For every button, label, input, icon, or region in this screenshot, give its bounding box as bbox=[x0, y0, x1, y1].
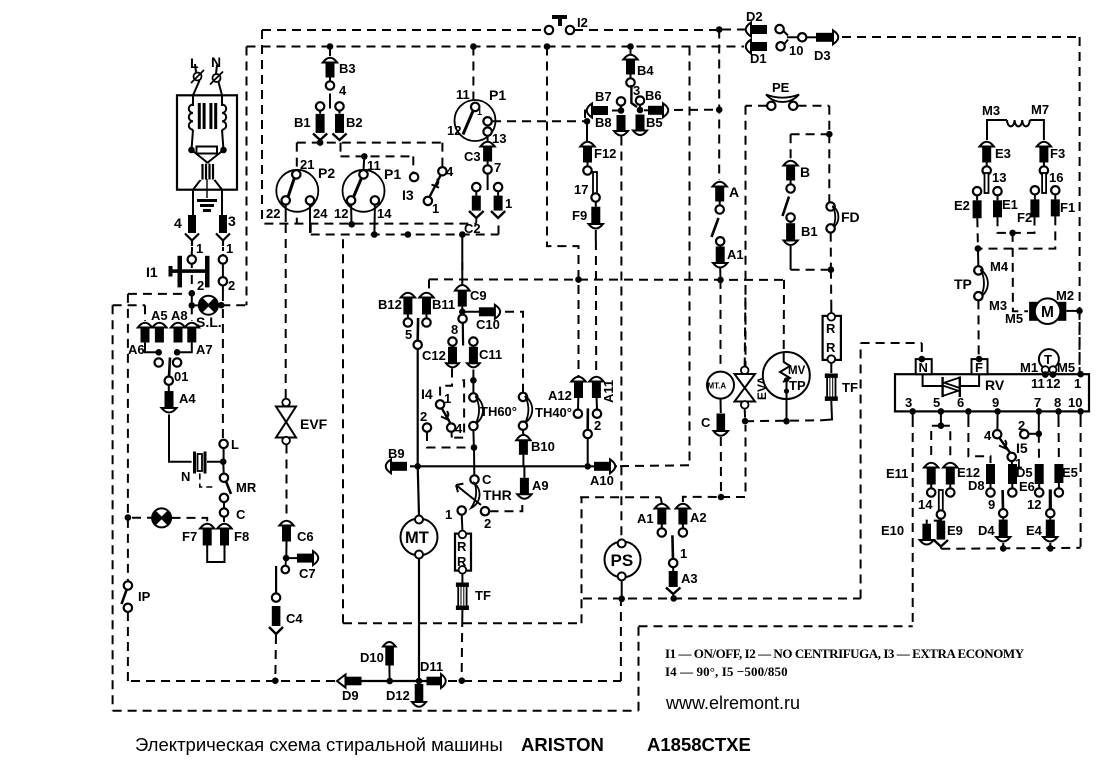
wire D10 stem bbox=[388, 666, 390, 682]
junction pin7 2 bbox=[1036, 431, 1043, 438]
link 16 bbox=[1042, 173, 1046, 193]
wire corner x860.6 up bbox=[860, 343, 862, 599]
wire B2 to timer line bbox=[340, 143, 342, 157]
connector A7 bbox=[185, 323, 199, 343]
svg-text:1: 1 bbox=[445, 507, 452, 522]
svg-text:B6: B6 bbox=[645, 88, 662, 103]
svg-text:MV: MV bbox=[788, 365, 806, 377]
svg-text:A: A bbox=[729, 184, 739, 200]
svg-text:I2: I2 bbox=[577, 15, 588, 30]
svg-text:TH60°: TH60° bbox=[480, 404, 517, 419]
junction lamp feed bbox=[125, 514, 132, 521]
wire pin6 down bbox=[967, 411, 969, 418]
connector B1 bbox=[319, 111, 321, 114]
svg-text:14: 14 bbox=[377, 206, 392, 221]
wire lamp right to corner x246.5 bbox=[221, 304, 246, 306]
junction P1-14 bbox=[371, 231, 378, 238]
terminal D5 bottom bbox=[1008, 488, 1016, 496]
wire pin9 down bbox=[996, 411, 998, 430]
wire note-box top y626.2 bbox=[639, 625, 913, 627]
wire TP top bbox=[977, 249, 980, 267]
programmer lower bus y234.5 bbox=[311, 234, 499, 236]
svg-text:7: 7 bbox=[494, 160, 501, 175]
svg-text:C4: C4 bbox=[286, 611, 303, 626]
bus E1F2 down x1012.9 bbox=[1012, 233, 1014, 308]
connector B9 bbox=[386, 459, 407, 473]
connector A1 mid bbox=[719, 246, 721, 247]
connector A bbox=[713, 182, 727, 214]
pilot lamp bbox=[152, 508, 171, 527]
junction bus x587.7 bbox=[584, 463, 591, 470]
pin 2 lever bbox=[586, 408, 589, 430]
svg-text:PE: PE bbox=[772, 80, 790, 95]
wire x127.9 below IP bbox=[127, 612, 129, 681]
wire lamp to F7 bbox=[172, 518, 208, 522]
connector C10 bbox=[479, 305, 500, 319]
junction A5 bottom bbox=[155, 349, 162, 356]
svg-text:R: R bbox=[826, 321, 836, 336]
junction A12 feed bbox=[575, 276, 582, 283]
wire corner x581.5 bbox=[581, 497, 583, 623]
svg-text:A6: A6 bbox=[128, 342, 145, 357]
svg-text:IP: IP bbox=[138, 589, 151, 604]
svg-text:A5: A5 bbox=[151, 308, 168, 323]
junction pin7 bbox=[1036, 408, 1043, 415]
junction B-branch bbox=[826, 131, 833, 138]
terminal E2 top bbox=[973, 187, 981, 195]
svg-text:2: 2 bbox=[228, 278, 235, 293]
svg-text:C: C bbox=[701, 415, 711, 430]
valve EVF bbox=[276, 399, 296, 445]
svg-text:B3: B3 bbox=[339, 61, 356, 76]
svg-text:4: 4 bbox=[984, 428, 992, 443]
wire P2-22 leg bbox=[285, 205, 287, 222]
line filter box bbox=[177, 95, 237, 189]
terminal C4 top bbox=[272, 593, 280, 601]
pin 1 lever A3 bbox=[671, 535, 674, 559]
svg-text:D2: D2 bbox=[746, 9, 763, 24]
connector E2 bbox=[976, 195, 978, 200]
svg-text:D3: D3 bbox=[814, 48, 831, 63]
wire x784 corner bbox=[783, 279, 785, 281]
signal lamp S.L. bbox=[199, 296, 218, 315]
wire TH60 bottom down bbox=[472, 430, 475, 447]
wire E2 down bbox=[976, 218, 979, 246]
junction P1 pin11 bbox=[361, 153, 368, 160]
svg-text:R: R bbox=[826, 340, 836, 355]
svg-text:2: 2 bbox=[420, 409, 427, 424]
terminal 2 pin bbox=[584, 430, 592, 438]
svg-text:4: 4 bbox=[339, 83, 347, 98]
svg-text:RV: RV bbox=[985, 377, 1005, 393]
svg-text:A9: A9 bbox=[532, 478, 549, 493]
svg-text:4: 4 bbox=[455, 421, 463, 436]
wire pole1 to lamp line bbox=[191, 293, 193, 305]
bus bottom right y548.8 bbox=[941, 548, 1080, 549]
thermostat TP bbox=[974, 266, 982, 274]
svg-text:22: 22 bbox=[266, 206, 280, 221]
thermostat FD bbox=[826, 202, 834, 210]
connector D5 bbox=[1011, 461, 1013, 464]
connector F1 bbox=[1054, 195, 1056, 200]
wire pin8 down bbox=[1058, 411, 1060, 418]
svg-text:I5: I5 bbox=[1016, 440, 1028, 456]
svg-text:T: T bbox=[1044, 352, 1052, 367]
wire 13 to C3 bbox=[487, 136, 489, 141]
wire E10-E9 split bbox=[927, 519, 941, 524]
wire MV drop bbox=[786, 399, 788, 421]
connector B6 bbox=[644, 109, 649, 111]
connector E12 bbox=[943, 463, 957, 497]
wire MT bottom bbox=[418, 559, 420, 687]
svg-text:I4: I4 bbox=[421, 386, 433, 402]
terminal below A8 bbox=[173, 358, 181, 366]
connector F7 bbox=[200, 524, 214, 546]
terminal A3 top bbox=[669, 559, 677, 567]
svg-text:M: M bbox=[1041, 304, 1054, 321]
connector A8 bbox=[171, 323, 185, 343]
cam switch P1 top bbox=[455, 100, 496, 141]
svg-text:1: 1 bbox=[505, 196, 512, 211]
bus y279.4 C9 crossing note wire bbox=[428, 278, 430, 280]
svg-text:11: 11 bbox=[367, 158, 381, 173]
junction pin5 bbox=[938, 408, 945, 415]
terminal D8 bottom bbox=[986, 488, 994, 496]
thermostat THR bbox=[470, 475, 478, 483]
wire F1 down corner bbox=[981, 216, 1055, 248]
inductor M3-M7 bbox=[987, 120, 1007, 140]
switch lever 01 bbox=[169, 358, 170, 378]
terminal C12 top bbox=[448, 337, 456, 345]
svg-text:2: 2 bbox=[484, 516, 491, 531]
wire top bus y30 left of I2 bbox=[262, 29, 546, 31]
junction resistor right bbox=[220, 147, 227, 154]
wire A7 feed bbox=[191, 305, 193, 321]
terminal I1 pole1 top bbox=[191, 251, 193, 255]
junction y447.5 bbox=[471, 444, 478, 451]
svg-text:B8: B8 bbox=[595, 115, 612, 130]
svg-text:F12: F12 bbox=[594, 146, 616, 161]
junction C6 bottom bbox=[283, 555, 290, 562]
wire 2 down corner bbox=[427, 432, 470, 448]
connector C6 bbox=[279, 521, 293, 542]
junction y46.5 at x473 bbox=[470, 43, 477, 50]
connector D11 bbox=[427, 674, 446, 688]
terminal 2 I5 bbox=[1020, 430, 1028, 438]
connector A4 bbox=[168, 385, 170, 391]
junction E2-F1 bbox=[975, 245, 982, 252]
svg-text:C: C bbox=[236, 507, 246, 522]
connector A10 bbox=[594, 459, 615, 473]
bus y421.2 EVA-MV-TF bbox=[745, 419, 822, 422]
wire inner left boundary x127.9 bbox=[127, 294, 129, 582]
bus joint x310.7 bbox=[310, 224, 312, 235]
connector B bbox=[783, 161, 797, 193]
svg-text:C9: C9 bbox=[470, 288, 487, 303]
connector F12 bbox=[580, 142, 594, 175]
svg-text:9: 9 bbox=[992, 395, 999, 410]
wire TF right elbow bbox=[822, 401, 832, 420]
svg-text:B10: B10 bbox=[531, 439, 555, 454]
svg-text:MR: MR bbox=[236, 480, 257, 495]
switch IP bbox=[124, 581, 132, 589]
wire C9 to C10 bbox=[462, 311, 479, 313]
wire B1 down bbox=[790, 246, 792, 270]
junction C-line y497 bbox=[718, 494, 725, 501]
junction A8 bottom bbox=[174, 349, 181, 356]
wire P2-24 leg bbox=[309, 205, 311, 233]
junction B1 box bbox=[317, 139, 324, 146]
wire box corner to I3 lever bbox=[441, 143, 443, 167]
svg-text:B2: B2 bbox=[346, 115, 363, 130]
wire A10 dashes right bbox=[620, 464, 690, 467]
switch I1 bbox=[169, 256, 210, 288]
wire C to F8 bbox=[223, 517, 225, 522]
wire PE right to box bbox=[798, 105, 830, 107]
connector A1 bbox=[655, 504, 669, 537]
terminal B5 top bbox=[636, 96, 644, 104]
wire P1-14 leg bbox=[373, 205, 376, 234]
svg-text:M3: M3 bbox=[982, 103, 1000, 118]
wire C6 to junction bbox=[285, 542, 287, 559]
svg-text:5: 5 bbox=[933, 395, 940, 410]
wire F12 stem bbox=[586, 121, 588, 141]
junction y46.5 at B4 bbox=[627, 43, 634, 50]
svg-text:11: 11 bbox=[456, 87, 470, 102]
svg-text:B1: B1 bbox=[801, 224, 818, 239]
wire pin5 split bbox=[931, 426, 941, 461]
wire 1-connector corner bbox=[498, 222, 500, 235]
junction lamp right bbox=[218, 302, 225, 309]
wire B7 elbow to F12 bbox=[585, 111, 588, 119]
junction M2 at box bbox=[1077, 371, 1084, 378]
wire THR1 to RR bbox=[461, 515, 464, 530]
svg-text:E6: E6 bbox=[1019, 479, 1035, 494]
connector E5 bbox=[1054, 464, 1063, 483]
svg-text:FD: FD bbox=[841, 209, 860, 225]
svg-text:A10: A10 bbox=[590, 473, 614, 488]
svg-text:1: 1 bbox=[444, 391, 451, 406]
svg-text:8: 8 bbox=[451, 322, 458, 337]
wire EVA top up bbox=[744, 285, 747, 367]
svg-text:D5: D5 bbox=[1016, 465, 1033, 480]
svg-text:A1858CTXE: A1858CTXE bbox=[647, 734, 751, 755]
connector E3 bbox=[980, 142, 994, 175]
timer line y156.4 bbox=[341, 155, 414, 157]
terminal A11 bottom bbox=[593, 410, 601, 418]
connector B8 bbox=[620, 106, 622, 111]
wire C3 stem bbox=[487, 173, 489, 190]
junction B12 feed bbox=[405, 231, 412, 238]
connector D2 bbox=[722, 29, 748, 31]
svg-text:C11: C11 bbox=[479, 347, 502, 362]
control unit box RV bbox=[895, 374, 1089, 411]
bus y279.4 bbox=[429, 278, 784, 281]
connector D9 bbox=[337, 675, 362, 688]
wire I3 drop bbox=[412, 156, 414, 172]
svg-text:B1: B1 bbox=[294, 115, 311, 130]
wire B8 down x621.4 bbox=[620, 137, 622, 467]
junction E4 bus bbox=[1047, 545, 1054, 552]
wire y37 D3 to right corner bbox=[842, 36, 1080, 38]
terminal box F bbox=[972, 359, 988, 375]
wire B3 to B-row bbox=[329, 94, 331, 109]
wire to MR bbox=[222, 462, 225, 474]
wire pin10 right edge bbox=[1080, 411, 1082, 418]
junction MV bus bbox=[783, 418, 790, 425]
link 17 bbox=[593, 172, 597, 194]
wire B1 to FD bottom bbox=[791, 269, 828, 271]
motor PS bbox=[605, 539, 641, 580]
wire A2 top corner bbox=[683, 497, 721, 502]
svg-text:L: L bbox=[190, 55, 199, 71]
svg-text:TF: TF bbox=[475, 588, 491, 603]
svg-text:D1: D1 bbox=[750, 51, 767, 66]
terminal D4 top bbox=[999, 509, 1007, 517]
svg-text:B7: B7 bbox=[595, 89, 612, 104]
svg-text:F3: F3 bbox=[1050, 146, 1065, 161]
wire x473 to P1top bbox=[472, 47, 474, 104]
junction C9 feed bbox=[459, 231, 466, 238]
svg-text:12: 12 bbox=[1027, 497, 1041, 512]
wire y447.5 to B9 line bbox=[473, 448, 475, 476]
terminal E4 top bbox=[1046, 509, 1054, 517]
connector B3 bbox=[323, 58, 337, 90]
connector A9 bbox=[520, 478, 529, 495]
wire left outer boundary x112.6 bbox=[112, 305, 114, 711]
programmer box left x296.8 bbox=[296, 143, 298, 224]
wire filter cross bbox=[192, 150, 224, 215]
wire 2 to pin7 bbox=[1029, 433, 1039, 435]
bus B9 solid bbox=[410, 465, 617, 467]
junction pin6 bbox=[965, 408, 972, 415]
wire capacitor to ground bbox=[206, 179, 208, 198]
connector C2 bbox=[475, 191, 477, 195]
cam switch P1 lower bbox=[343, 170, 385, 212]
switch I5 bbox=[993, 430, 1001, 438]
svg-text:D9: D9 bbox=[342, 688, 359, 703]
connector 1 bbox=[497, 191, 499, 195]
svg-text:A3: A3 bbox=[681, 571, 698, 586]
svg-text:E4: E4 bbox=[1026, 523, 1043, 538]
svg-text:2: 2 bbox=[594, 418, 601, 433]
svg-text:1: 1 bbox=[432, 201, 439, 216]
wire 5 down solid bbox=[417, 349, 419, 466]
wire C to junction y497 bbox=[720, 437, 722, 497]
svg-text:F8: F8 bbox=[234, 529, 249, 544]
wire F9 down to A11 bbox=[595, 230, 597, 241]
wire A4 to crystal N bbox=[169, 415, 192, 462]
connector B12 bbox=[401, 293, 415, 327]
svg-text:14: 14 bbox=[918, 497, 933, 512]
wire x829.3 PE-FD bbox=[828, 134, 830, 203]
svg-text:A1: A1 bbox=[637, 511, 654, 526]
terminal E6 bottom bbox=[1035, 488, 1043, 496]
svg-text:E9: E9 bbox=[947, 523, 963, 538]
triac RV bbox=[923, 374, 942, 386]
wire A8-A7 join bbox=[177, 343, 192, 353]
connector F3 bbox=[1037, 142, 1051, 175]
svg-text:E10: E10 bbox=[881, 523, 904, 538]
terminal B2 top bbox=[335, 102, 343, 110]
svg-text:2: 2 bbox=[197, 278, 204, 293]
wire B10 to bus bbox=[522, 455, 524, 467]
link 13 bbox=[985, 173, 989, 193]
wire C2 stem down bbox=[475, 219, 477, 224]
svg-text:EVF: EVF bbox=[300, 416, 328, 432]
connector F9 bbox=[595, 202, 597, 207]
wire E4 to bus bbox=[1049, 543, 1051, 549]
junction D4 bus bbox=[1000, 545, 1007, 552]
resonator N bbox=[195, 452, 206, 474]
svg-text:12: 12 bbox=[1046, 376, 1060, 391]
wire TP bottom down bbox=[977, 300, 979, 357]
thermostat TH60 bbox=[469, 393, 477, 401]
svg-text:I3: I3 bbox=[402, 187, 414, 203]
junction MT-D12 bbox=[416, 678, 423, 685]
svg-text:E5: E5 bbox=[1062, 465, 1078, 480]
terminal B1 top bbox=[316, 102, 324, 110]
svg-text:3: 3 bbox=[905, 395, 912, 410]
wire MT.A to C connector bbox=[720, 399, 722, 413]
svg-text:B5: B5 bbox=[646, 115, 663, 130]
pushbutton switch I2 bbox=[545, 15, 574, 34]
svg-text:F2: F2 bbox=[1017, 210, 1032, 225]
wire RR to TF bbox=[461, 574, 463, 584]
terminal L bbox=[219, 440, 227, 448]
terminal I3 bbox=[410, 173, 418, 181]
connector 3 below filter bbox=[219, 215, 227, 233]
svg-text:D10: D10 bbox=[360, 650, 384, 665]
junction pin10 bbox=[1077, 408, 1084, 415]
connector C12 bbox=[452, 346, 454, 347]
svg-text:TP: TP bbox=[954, 276, 972, 292]
junction I1 pole1 bbox=[189, 290, 196, 297]
svg-text:10: 10 bbox=[789, 43, 803, 58]
terminal A12 bottom bbox=[574, 410, 582, 418]
junction P1-12 bbox=[348, 221, 355, 228]
svg-text:E1: E1 bbox=[1002, 197, 1018, 212]
connector C lower bbox=[717, 414, 726, 431]
heater RR right bbox=[823, 313, 841, 363]
wire corner top-left x262 bbox=[261, 30, 263, 224]
bus y598.5 bbox=[583, 598, 861, 600]
connector A5 bbox=[152, 323, 166, 343]
thermal protector PE bbox=[766, 95, 799, 102]
wire filter winding to resistor node bbox=[192, 130, 224, 150]
connector 4 below filter bbox=[188, 215, 196, 233]
svg-text:PS: PS bbox=[611, 551, 634, 570]
wire link to C4 bbox=[275, 566, 277, 593]
wire EVA bottom to junction bbox=[744, 409, 746, 419]
connector C11 bbox=[472, 346, 474, 347]
svg-text:D4: D4 bbox=[978, 523, 995, 538]
svg-text:4: 4 bbox=[174, 215, 182, 231]
wire B6 to x719 bbox=[674, 109, 716, 111]
connector D8 bbox=[986, 464, 995, 484]
junction FD bottom bbox=[828, 266, 835, 273]
wire M right to M2 line bbox=[1066, 310, 1077, 312]
connector A11 bbox=[589, 377, 603, 398]
wire lamp left bbox=[192, 304, 199, 306]
wire bus y46.5 from x246.5 bbox=[247, 46, 745, 48]
wire to pilot lamp bbox=[132, 517, 152, 519]
junction top bus to D2 bbox=[716, 26, 723, 33]
wire RR right top bbox=[830, 306, 832, 313]
junction lamp left bbox=[189, 302, 196, 309]
svg-text:F1: F1 bbox=[1060, 200, 1075, 215]
motor MT bbox=[401, 516, 438, 559]
